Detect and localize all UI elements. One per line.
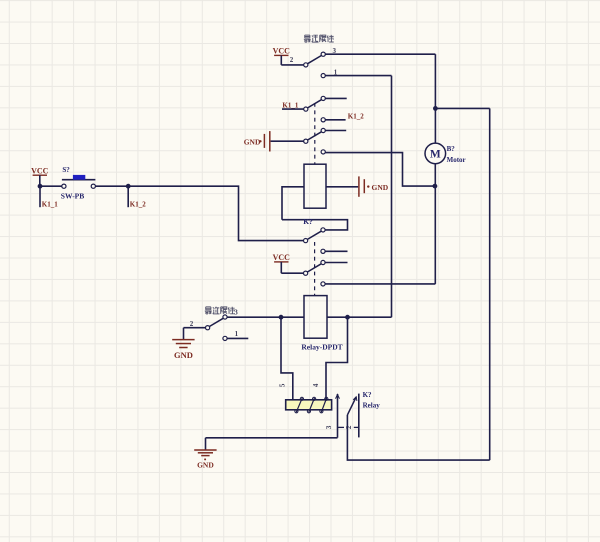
relay K? contact pole [336, 394, 340, 438]
svg-text:4: 4 [312, 383, 320, 387]
pin 1 label [334, 69, 338, 77]
ground GND (bottom) [194, 438, 216, 470]
wire coil right pin [326, 186, 358, 188]
wire pin5 drop [281, 317, 293, 400]
relay contact (VCC) [304, 260, 326, 286]
svg-text:K1_1: K1_1 [42, 201, 58, 209]
junction [279, 315, 284, 320]
svg-text:1: 1 [235, 330, 239, 338]
svg-text:Relay-DPDT: Relay-DPDT [301, 342, 342, 351]
pin 2 label [290, 56, 294, 64]
svg-text:K?: K? [363, 391, 372, 399]
relay coil Relay-DPDT [304, 296, 327, 339]
pin 3 label [333, 47, 337, 55]
pin 5 label [279, 383, 287, 387]
net label K1_2 [130, 201, 146, 209]
pin 3 label [234, 308, 238, 316]
svg-text:GND: GND [244, 138, 261, 147]
pin 1 label [235, 330, 239, 338]
net label K1_1 (contact) [282, 101, 298, 109]
power port VCC (top switch) [273, 47, 291, 65]
wire stub pin1 [227, 337, 248, 339]
pin 2 label [345, 425, 353, 429]
svg-text:K1_2: K1_2 [348, 112, 364, 120]
wire [435, 107, 489, 109]
svg-text:VCC: VCC [31, 166, 49, 175]
wire pin4 drop [326, 317, 348, 400]
wire stub [325, 97, 346, 99]
relay K1 coil [304, 164, 326, 208]
switch SW1 farthest-limit [304, 52, 326, 78]
relay K? coil body [286, 400, 332, 410]
wire pole down and right [347, 415, 489, 460]
net label K1_1 [42, 201, 58, 209]
svg-text:2: 2 [190, 320, 194, 328]
pin 4 label [312, 383, 320, 387]
wire right column [489, 108, 491, 460]
relay K1 contact B [304, 128, 326, 154]
pin 3 label [325, 425, 333, 429]
wire stub K1_2 [325, 119, 345, 121]
svg-text:K1_2: K1_2 [130, 201, 146, 209]
svg-text:GND: GND [174, 350, 193, 360]
svg-text:GND: GND [372, 183, 389, 192]
svg-text:2: 2 [345, 425, 353, 429]
svg-text:VCC: VCC [273, 253, 291, 262]
designator S? [62, 166, 70, 174]
label Relay-DPDT [301, 342, 342, 351]
wire [271, 140, 304, 142]
net label K1_1 stub [39, 186, 41, 207]
wire stub [325, 250, 347, 252]
wire stub [325, 130, 346, 132]
wire motor bottom [434, 164, 436, 284]
wire pin1 right [325, 75, 391, 77]
wire [281, 64, 303, 66]
svg-text:3: 3 [325, 425, 333, 429]
wire coil to K? throw [282, 220, 348, 230]
wire stub K1_1 [282, 108, 304, 110]
svg-text:K1_1: K1_1 [282, 101, 298, 109]
ground GND battery-style (right) [359, 176, 389, 196]
wire right pin [327, 316, 392, 318]
svg-text:2: 2 [290, 56, 294, 64]
wire pin3 to motor column [325, 53, 435, 55]
wire to K? contact [128, 186, 303, 240]
svg-text:K?: K? [303, 217, 313, 226]
wire [281, 272, 303, 274]
label SW-PB [61, 192, 84, 201]
svg-text:S?: S? [62, 166, 70, 174]
designator B? [447, 145, 456, 153]
label nearest-limit (最近限位) [205, 307, 235, 314]
svg-text:5: 5 [279, 383, 287, 387]
svg-text:GND: GND [197, 460, 214, 469]
relay linkage (dashed) [314, 242, 316, 295]
wire GND stem [183, 328, 185, 340]
wire to motor bottom [325, 153, 433, 187]
svg-text:SW-PB: SW-PB [61, 192, 84, 201]
relay K? contact [304, 228, 326, 254]
wire [95, 185, 128, 187]
svg-text:Relay: Relay [363, 401, 381, 409]
pin 3 tick [338, 426, 345, 428]
wire pin1 down [391, 76, 393, 318]
label Relay [363, 401, 381, 409]
net label K1_2 stub [127, 186, 129, 207]
power port VCC (middle) [273, 253, 291, 273]
junction [345, 315, 350, 320]
net label K1_2 (contact) [348, 112, 364, 120]
label farthest-limit (最远限位) [304, 35, 334, 42]
junction [433, 184, 438, 189]
ground GND battery-style (left) [244, 131, 270, 151]
wire left pin [227, 316, 304, 318]
switch SW2 nearest-limit [206, 315, 228, 341]
pin 2 tick [354, 426, 359, 428]
wire throw to motor column [325, 283, 435, 285]
svg-text:3: 3 [234, 308, 238, 316]
junction [126, 184, 131, 189]
pushbutton SW-PB [62, 175, 96, 188]
junction [38, 184, 43, 189]
pin 2 label [190, 320, 194, 328]
ground GND (bar style) [172, 340, 194, 360]
wire coil left pin [282, 187, 304, 220]
svg-text:B?: B? [447, 145, 456, 153]
wire [40, 185, 62, 187]
wire pin3 to ground [206, 437, 338, 439]
label Motor [447, 156, 466, 164]
svg-text:Motor: Motor [447, 156, 466, 164]
relay K1 linkage (dashed) [314, 103, 316, 164]
designator K? [303, 217, 313, 226]
designator K? (relay) [363, 391, 372, 399]
relay K1 contact A [304, 96, 326, 122]
wire stub [325, 262, 347, 264]
wire [184, 327, 206, 329]
svg-text:VCC: VCC [273, 47, 291, 56]
motor B? [425, 143, 446, 164]
power port VCC (left) [31, 166, 49, 186]
relay K? fixed contact [358, 394, 360, 438]
relay K? coil winding [295, 397, 328, 413]
junction [433, 106, 438, 111]
relay K? blade [347, 397, 357, 415]
svg-text:M: M [430, 149, 441, 161]
wire motor top [434, 54, 436, 143]
